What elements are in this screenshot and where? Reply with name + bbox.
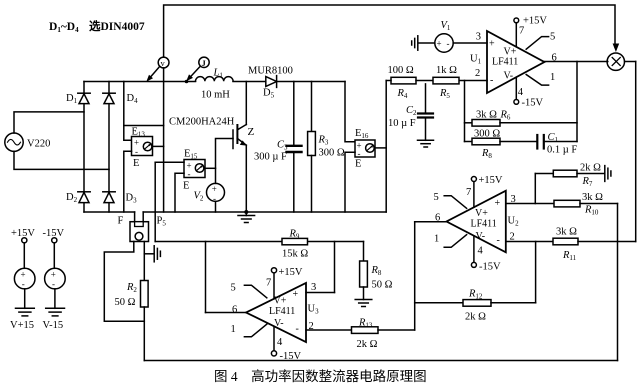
svg-text:L1: L1 [213,68,224,80]
resistor R8 50ohm [360,242,368,300]
labels V1 [437,20,451,49]
transistor Z IGBT [233,82,247,213]
svg-text:R4: R4 [397,88,408,100]
source V1 [419,34,454,52]
svg-text:+15V: +15V [523,16,547,27]
svg-text:7: 7 [466,187,471,198]
svg-text:R8: R8 [371,265,382,277]
labels R6 R8 C1 [474,110,577,161]
svg-text:V-: V- [274,318,284,329]
svg-text:+15V: +15V [479,175,503,186]
svg-text:D4: D4 [127,93,139,105]
AC source V220 [5,112,109,169]
text header [49,19,145,34]
svg-text:J: J [202,58,207,68]
svg-text:+: + [293,289,299,300]
svg-text:D3: D3 [126,193,138,205]
svg-text:-: - [135,147,138,157]
svg-text:-: - [188,169,191,179]
svg-text:CM200HA24H: CM200HA24H [169,117,235,128]
svg-text:1: 1 [231,324,236,335]
resistor R5 [433,77,459,84]
svg-text:+: + [212,184,217,194]
svg-text:V-: V- [504,71,514,82]
svg-text:C2: C2 [406,105,417,117]
capacitor C1 [537,135,577,149]
svg-text:V1: V1 [441,20,451,32]
svg-text:5: 5 [231,283,236,294]
svg-text:2: 2 [510,232,515,243]
diode D3 [103,192,115,203]
labels R2 [115,282,138,308]
labels V2 [194,184,217,204]
ground (V1) [412,36,418,50]
svg-text:2: 2 [309,321,314,332]
svg-text:v: v [161,58,166,68]
labels IGBT [169,117,255,139]
svg-text:V-15: V-15 [43,320,64,331]
svg-text:2k Ω: 2k Ω [580,163,601,174]
svg-text:3k Ω: 3k Ω [476,110,497,121]
meter J [185,57,210,83]
svg-text:LF411: LF411 [471,219,497,230]
resistor R6 [465,120,578,127]
svg-text:0.1 µ F: 0.1 µ F [547,145,577,156]
wire top rail [164,5,615,57]
svg-text:选DIN4007: 选DIN4007 [89,19,145,33]
labels R10 [582,192,603,217]
svg-text:R2: R2 [126,282,137,294]
svg-text:3k Ω: 3k Ω [582,192,603,203]
svg-text:D1: D1 [66,93,78,105]
resistor R9 [282,238,308,244]
resistor R10 [554,200,618,360]
meter V [146,57,169,82]
svg-text:-15V: -15V [43,228,65,239]
svg-text:5: 5 [434,192,439,203]
ground (-15V source) [46,308,65,316]
labels E15 [183,149,198,192]
resistor R13 [352,327,415,334]
svg-text:-: - [52,279,55,289]
svg-text:2: 2 [475,68,480,79]
multiplier [607,44,636,71]
op-amp U2 [415,177,554,331]
svg-text:+15V: +15V [279,267,303,278]
svg-text:2k Ω: 2k Ω [357,339,378,350]
svg-text:E: E [355,159,361,170]
svg-text:R6: R6 [500,110,511,122]
ground (R7) [605,166,611,182]
svg-text:300 µ F: 300 µ F [254,152,287,163]
labels E16 [355,128,369,170]
labels L1 [201,68,230,101]
svg-text:MUR8100: MUR8100 [248,66,293,77]
labels U3 [231,267,320,362]
svg-text:-: - [497,235,500,246]
svg-text:1: 1 [434,234,439,245]
svg-text:V2: V2 [194,191,204,203]
svg-text:LF411: LF411 [492,57,518,68]
op-amp U3 [206,242,352,357]
labels supply [10,228,64,331]
svg-text:-: - [490,75,493,86]
op-amp U1 [453,18,608,104]
svg-text:300 Ω: 300 Ω [319,148,345,159]
svg-text:4: 4 [518,87,524,98]
svg-text:1k Ω: 1k Ω [436,65,457,76]
ground (IGBT emitter) [238,210,255,223]
labels R13 [357,318,378,351]
svg-text:+: + [495,198,501,209]
supply -15V source [45,238,66,309]
svg-text:10 mH: 10 mH [201,90,230,101]
resistor R7 [535,170,604,203]
labels R11 [556,227,577,263]
wire P5 riser [154,162,156,241]
svg-text:U2: U2 [508,216,520,228]
svg-text:E: E [183,181,189,192]
svg-text:-: - [447,39,450,49]
svg-text:50 Ω: 50 Ω [115,297,136,308]
ground (+15V source) [16,308,35,316]
svg-text:3: 3 [511,194,516,205]
svg-text:2k Ω: 2k Ω [465,312,486,323]
resistor R8 300ohm [465,138,537,145]
svg-text:3k Ω: 3k Ω [556,227,577,238]
svg-text:100 Ω: 100 Ω [388,65,414,76]
svg-text:+: + [21,270,26,280]
labels D5 [248,66,293,100]
resistor R3 [308,82,316,213]
svg-text:-15V: -15V [280,351,302,362]
svg-text:LF411: LF411 [269,306,295,317]
svg-text:-: - [358,149,361,159]
wire U1 feedback risers [465,62,578,142]
svg-text:+: + [489,39,495,50]
svg-text:D2: D2 [66,192,78,204]
labels C3 R3 [254,135,345,163]
inductor L1 [196,77,234,82]
svg-text:6: 6 [552,53,557,64]
svg-text:R12: R12 [468,289,483,301]
diode D5 MUR8100 [266,76,277,88]
svg-text:R3: R3 [318,135,329,147]
svg-text:6: 6 [232,305,237,316]
E16 sensor block [345,81,386,213]
svg-text:5: 5 [550,32,555,43]
svg-text:+: + [51,270,56,280]
svg-text:P5: P5 [157,216,167,228]
svg-text:+15V: +15V [11,228,35,239]
svg-text:7: 7 [519,26,524,37]
ground (R8) [355,300,372,307]
svg-text:-15V: -15V [479,262,501,273]
svg-text:15k Ω: 15k Ω [282,249,308,260]
wire top bus y=81.5 [84,81,345,83]
source V2 [207,139,234,213]
svg-text:U1: U1 [470,54,482,66]
svg-text:Z: Z [248,126,255,138]
svg-text:-: - [296,324,299,335]
capacitor C3 [287,82,302,213]
svg-text:C1: C1 [548,132,559,144]
resistor R12 [415,242,536,307]
svg-text:V+: V+ [475,208,488,219]
labels R4 R5 C2 [388,65,458,129]
svg-text:R9: R9 [289,229,300,241]
diode D1 [78,82,90,213]
labels bridge diodes [66,93,138,205]
svg-text:V-: V- [476,231,486,242]
svg-text:4: 4 [277,337,283,348]
meter glyphs [161,58,207,68]
svg-text:R13: R13 [358,318,373,330]
wire signal row y=241.5 [155,241,363,243]
svg-text:R11: R11 [562,250,577,262]
supply +15V source [14,238,35,309]
labels U2 [434,175,520,273]
E13 sensor block [124,82,164,213]
svg-text:300 Ω: 300 Ω [474,129,500,140]
wire bottom feedback rail y=360.5 [144,360,617,362]
svg-text:R10: R10 [584,205,599,217]
labels U1 [470,16,557,109]
svg-text:图 4 高功率因数整流器电路原理图: 图 4 高功率因数整流器电路原理图 [214,368,427,384]
labels F P5 [118,216,167,228]
svg-text:U3: U3 [308,304,320,316]
svg-text:3: 3 [476,32,481,43]
svg-text:R7: R7 [582,176,593,188]
svg-text:10 µ F: 10 µ F [388,118,416,129]
diode D4 [103,82,115,213]
resistor R11 [553,62,636,245]
svg-text:D5: D5 [263,88,275,100]
E15 sensor block [155,160,215,213]
svg-text:F: F [118,216,124,227]
svg-text:C3: C3 [277,140,288,152]
diode D2 [78,192,90,203]
svg-text:V220: V220 [27,139,50,150]
resistor R2 [141,281,149,361]
svg-text:E: E [133,158,139,169]
svg-text:3: 3 [311,282,316,293]
svg-text:-: - [213,194,216,204]
labels R12 [465,289,486,323]
svg-text:6: 6 [435,213,440,224]
current sensor F [104,212,148,321]
svg-text:R8: R8 [481,148,492,160]
svg-text:D1~D4: D1~D4 [49,21,79,34]
wire V-meter drop to rails [163,68,165,212]
svg-text:+: + [437,39,442,49]
svg-text:50 Ω: 50 Ω [372,280,393,291]
resistor R4 [386,77,433,84]
ground (C2) [418,140,434,147]
wire bottom power rail y=212 [84,211,386,213]
svg-text:-15V: -15V [522,98,544,109]
ground (F sensor tap) [144,246,160,262]
svg-text:7: 7 [266,278,271,289]
capacitor C2 [418,84,433,140]
svg-text:-: - [22,279,25,289]
svg-text:E16: E16 [355,128,369,140]
labels E13 [132,127,146,170]
svg-text:R5: R5 [439,88,450,100]
labels R9 R8b [282,229,393,291]
labels R7 [580,163,601,189]
svg-text:E15: E15 [184,149,198,161]
svg-text:V+15: V+15 [10,320,34,331]
svg-text:1: 1 [550,72,555,83]
svg-text:4: 4 [478,246,484,257]
svg-text:V+: V+ [274,296,287,307]
